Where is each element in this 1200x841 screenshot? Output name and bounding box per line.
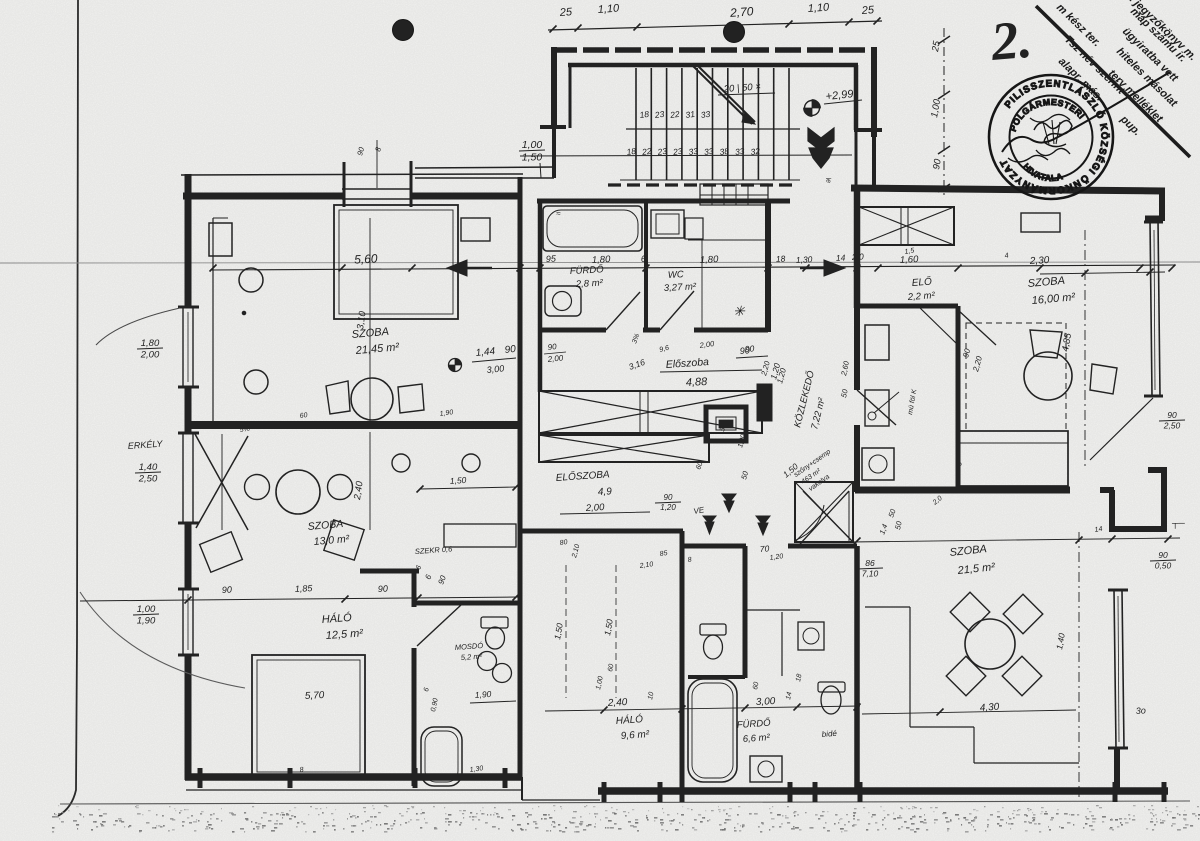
svg-text:2,70: 2,70 (729, 4, 755, 20)
elo door leaf (958, 310, 996, 345)
pin arrow 3 (756, 516, 770, 535)
svg-text:70: 70 (759, 543, 769, 554)
shower tray (651, 210, 684, 238)
elo west wall (956, 306, 961, 490)
corridor door swings (800, 491, 849, 544)
svg-text:3,00: 3,00 (486, 363, 504, 375)
partition wall h2 (414, 601, 519, 606)
svg-text:1,30: 1,30 (796, 254, 813, 265)
bed halo (252, 655, 365, 777)
bath block west wall (538, 199, 543, 392)
stair inner left wall (569, 65, 572, 128)
stair tread numbers (626, 109, 761, 157)
svg-text:1,10: 1,10 (807, 1, 830, 15)
chair room1 right (398, 384, 424, 413)
left fold line (58, 0, 78, 816)
entry porch (700, 184, 768, 205)
tub2 (421, 727, 462, 786)
svg-text:3,00: 3,00 (756, 696, 776, 708)
kitchen west wall 2 (854, 425, 860, 492)
svg-text:25: 25 (860, 4, 875, 17)
svg-text:1,80: 1,80 (141, 338, 160, 349)
kitchen door leaf (857, 390, 896, 425)
stair run diagonal (693, 66, 752, 124)
table room1 (351, 378, 393, 420)
right window lower (1114, 590, 1116, 748)
horizontal crease line (0, 262, 1200, 263)
bath3 west wall (680, 546, 685, 790)
counter (865, 390, 889, 426)
wc3 toilet (700, 624, 726, 635)
shelf (209, 223, 232, 256)
left-wing top outer face line (181, 174, 523, 175)
svg-text:18: 18 (639, 109, 650, 120)
bottom scan shadow band (52, 801, 1200, 833)
stair long thin line (520, 155, 852, 156)
svg-text:1,44: 1,44 (475, 346, 496, 359)
bath block east wall (765, 201, 771, 332)
svg-text:4,88: 4,88 (686, 376, 709, 389)
dim line v right (1084, 230, 1086, 470)
washbasin (545, 286, 581, 316)
step block SE (1109, 490, 1115, 532)
svg-text:2,00: 2,00 (140, 350, 160, 361)
chair diamond 2 (1003, 594, 1043, 634)
svg-text:90: 90 (664, 493, 673, 502)
balcony arc upper (96, 308, 180, 345)
left wall balcony door (182, 433, 184, 523)
dim line y710 (545, 706, 860, 711)
chair diamond 4 (1002, 656, 1042, 696)
svg-text:14: 14 (1094, 526, 1103, 534)
svg-text:86: 86 (865, 558, 875, 568)
svg-text:2,50: 2,50 (138, 474, 158, 485)
fridge (865, 325, 889, 360)
partition wall v1 (412, 569, 417, 607)
svg-text:WC: WC (668, 269, 685, 281)
nightstand (461, 218, 490, 241)
svg-text:80: 80 (559, 539, 568, 547)
svg-text:1,80: 1,80 (592, 254, 612, 266)
svg-text:5,60: 5,60 (354, 251, 378, 266)
bed rw dashed (966, 323, 1066, 431)
left-wing top wall east part (410, 193, 522, 200)
dim 2,40 vertical (369, 432, 371, 530)
scatter dims right (904, 247, 1103, 534)
svg-text:9,6 m²: 9,6 m² (620, 729, 650, 742)
top dimension chain (548, 1, 882, 32)
wc room inner line (688, 239, 766, 241)
svg-text:18: 18 (776, 254, 786, 264)
right window east (1150, 220, 1152, 396)
pin arrow 2 (722, 494, 736, 512)
bath5 east wall (518, 605, 523, 779)
svg-text:3,27 m²: 3,27 m² (664, 281, 698, 294)
bathroom south wall m (643, 328, 660, 333)
svg-text:90: 90 (222, 584, 233, 595)
svg-text:1,90: 1,90 (137, 616, 156, 627)
desk (444, 524, 516, 547)
svg-text:5,2 m²: 5,2 m² (461, 651, 483, 661)
halo east wall (412, 648, 417, 786)
svg-text:3o: 3o (1135, 705, 1146, 716)
vertical dimension chain right of stairs (929, 28, 950, 198)
left outer wall s2 (185, 387, 192, 433)
stair treads (620, 68, 800, 180)
bath block top wall (537, 199, 790, 204)
chair rw right (1090, 364, 1117, 394)
corridor east wall upper (854, 188, 861, 308)
stool r2 (462, 454, 480, 472)
wc4 toilet (821, 686, 841, 714)
radiator top r (1021, 213, 1060, 232)
svg-text:5,70: 5,70 (305, 690, 325, 702)
terrace door diag (1090, 398, 1153, 460)
bathroom south wall e (694, 328, 768, 333)
left outer wall s1 (185, 174, 192, 307)
wardrobe X box 1 (539, 391, 762, 433)
svg-text:1,60: 1,60 (900, 254, 920, 266)
left-wing bottom wall (185, 773, 521, 781)
table room2 (276, 470, 320, 514)
sink3 (798, 622, 824, 650)
svg-text:5%: 5% (239, 426, 250, 434)
wc2 toilet (481, 617, 508, 628)
small sink (685, 218, 703, 239)
svg-text:6,6 m²: 6,6 m² (742, 732, 770, 745)
right wing step e (1145, 216, 1165, 221)
chimney (757, 384, 772, 421)
table br (965, 619, 1015, 669)
corner diagonal line (1036, 6, 1190, 157)
left-wing parapet line (186, 789, 522, 791)
svg-text:1,90: 1,90 (474, 689, 491, 700)
washing machine 2 (750, 756, 782, 782)
kitchen north wall (855, 304, 958, 309)
corner handwriting (1054, 0, 1199, 138)
stair inner top wall (568, 63, 858, 68)
bathroom south wall w (538, 328, 606, 333)
punch hole left (393, 20, 414, 41)
svg-text:25: 25 (558, 6, 573, 19)
dim line y540 (850, 538, 1180, 542)
bath door leaf 2 (660, 291, 694, 330)
eloszoba south wall w (518, 529, 683, 534)
svg-text:23: 23 (653, 109, 665, 120)
right wing NE corner (1159, 190, 1165, 221)
svg-text:33: 33 (700, 109, 711, 120)
left outer wall s3 (185, 523, 192, 589)
szekreny X box r (859, 207, 954, 245)
svg-text:6: 6 (641, 254, 647, 264)
chair rw top (1030, 330, 1062, 358)
stair-to-wall link (552, 129, 556, 178)
chair c1 (245, 475, 270, 500)
scatter dims left (239, 409, 484, 774)
benchmark 2 (449, 359, 462, 372)
svg-text:≈: ≈ (556, 209, 561, 218)
bathtub (543, 206, 642, 251)
official stamp (989, 75, 1113, 199)
section arrow left (447, 260, 467, 276)
svg-text:7,10: 7,10 (862, 569, 879, 579)
stool r1 (392, 454, 410, 472)
punch hole right (724, 22, 745, 43)
corridor east wall lower (854, 546, 860, 791)
right wing south wall e (1100, 487, 1114, 493)
svg-text:bidé: bidé (821, 729, 837, 739)
wardrobe X box 2 (539, 435, 709, 462)
pin arrow 1 (703, 516, 716, 534)
svg-text:2.: 2. (988, 9, 1035, 72)
sofa tilted (200, 532, 243, 573)
svg-text:4,9: 4,9 (598, 486, 613, 498)
vestibule parapet (415, 167, 556, 168)
svg-text:2,2 m²: 2,2 m² (906, 290, 935, 303)
svg-text:85: 85 (659, 550, 668, 558)
bath block mid wall (644, 201, 648, 330)
svg-text:1,50: 1,50 (522, 152, 543, 164)
svg-text:90: 90 (1167, 410, 1177, 420)
bed room1 (334, 205, 458, 319)
svg-text:1,00: 1,00 (137, 604, 156, 615)
stool 2 (244, 370, 268, 394)
svg-text:22: 22 (668, 109, 680, 120)
svg-text:1,85: 1,85 (295, 583, 314, 594)
svg-text:2,50: 2,50 (1163, 421, 1181, 431)
table right wing (1024, 352, 1072, 400)
chair diamond 1 (950, 592, 990, 632)
intercom symbol (706, 407, 746, 441)
bath door leaf 1 (606, 292, 640, 330)
double basin (478, 652, 497, 671)
bath3 inner v (781, 612, 783, 676)
chair room1 left (326, 381, 350, 414)
section arrow right (824, 260, 845, 276)
szoba215 inner line (865, 606, 910, 608)
bed rw (958, 431, 1068, 486)
scatter dims center (544, 333, 784, 570)
room1 inner line (212, 218, 214, 423)
svg-text:┬─: ┬─ (1171, 518, 1185, 529)
kitchen west wall (854, 306, 860, 390)
bottom wall main (598, 787, 1168, 795)
left wall window 1 (182, 307, 184, 387)
left room east wall (518, 177, 523, 425)
svg-text:1,50: 1,50 (449, 475, 466, 486)
right wing top wall (851, 188, 1165, 191)
bottom wall posts left wing (198, 768, 203, 788)
svg-text:14: 14 (836, 253, 846, 263)
bath3 mid wall (743, 546, 748, 678)
svg-text:90: 90 (504, 344, 517, 356)
svg-text:✳: ✳ (733, 303, 746, 319)
left outer wall s4 (185, 655, 192, 780)
chair diamond 3 (946, 656, 986, 696)
benchmark +2,99 (805, 101, 820, 116)
halo door leaf (417, 605, 461, 646)
stair dashed lower wall (608, 183, 792, 186)
svg-text:1,20: 1,20 (660, 503, 676, 512)
wardrobe X box corridor (795, 482, 853, 542)
stair left outer wall (551, 47, 557, 129)
svg-text:31: 31 (685, 109, 696, 120)
wall between left rooms (187, 421, 521, 429)
dim line h right (1040, 272, 1165, 274)
stair left stub (540, 125, 566, 129)
chair c2 (328, 475, 353, 500)
dim 1,50 (420, 487, 516, 489)
chair tilted sq (324, 520, 364, 560)
bottom step link (521, 777, 523, 800)
bath3 h wall (688, 675, 745, 679)
balcony arc lower (80, 592, 245, 688)
svg-text:0,50: 0,50 (1155, 561, 1172, 571)
svg-text:FÜRDŐ: FÜRDŐ (570, 264, 605, 277)
svg-text:2,00: 2,00 (585, 502, 606, 514)
stair right stub (854, 128, 882, 132)
dash-dot line br (1078, 532, 1080, 797)
stair right outer wall (871, 47, 877, 137)
stair inner right wall (854, 65, 859, 130)
svg-text:90: 90 (378, 583, 389, 594)
tub3 (688, 679, 737, 782)
room1 dim vertical (369, 218, 371, 423)
door swing room2 (195, 434, 248, 530)
dot (242, 311, 246, 315)
svg-text:90: 90 (744, 343, 754, 354)
partition wall h1 (360, 569, 419, 574)
right wall lower (1114, 748, 1120, 791)
signature swoosh (1002, 72, 1170, 152)
bottom wall posts (602, 782, 607, 802)
svg-text:1,10: 1,10 (597, 2, 620, 16)
corridor west wall (518, 425, 523, 605)
svg-text:2,8 m²: 2,8 m² (575, 278, 604, 290)
svg-text:HÁLÓ: HÁLÓ (321, 611, 352, 626)
washing machine 1 (862, 448, 894, 480)
diag scribble notes (793, 448, 844, 495)
svg-text:90: 90 (1158, 550, 1168, 560)
dim chain y599 (80, 597, 520, 601)
top window (342, 188, 412, 190)
left-wing top wall west part (183, 193, 344, 200)
svg-text:95: 95 (546, 253, 558, 264)
svg-text:60: 60 (299, 412, 308, 420)
svg-text:2,40: 2,40 (607, 697, 628, 709)
svg-text:2,30: 2,30 (1029, 255, 1050, 267)
svg-text:1,40: 1,40 (139, 462, 158, 473)
corridor south wall e (788, 544, 857, 549)
svg-text:2,00: 2,00 (546, 353, 564, 364)
svg-text:90: 90 (547, 342, 557, 352)
eloszoba south wall step (680, 531, 685, 548)
corridor south wall m (682, 544, 746, 549)
stair top outer wall (dashed) (551, 47, 877, 53)
left wall window 2 (182, 589, 184, 655)
stool 1 (239, 268, 263, 292)
svg-text:1,00: 1,00 (522, 139, 543, 151)
main dimension line (210, 251, 1176, 271)
right wing south wall (855, 487, 1070, 494)
up arrow symbol (808, 128, 834, 151)
svg-text:1,80: 1,80 (700, 254, 720, 266)
